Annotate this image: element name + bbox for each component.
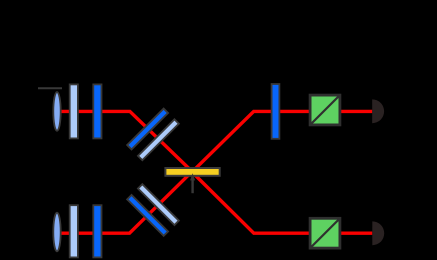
leader line to lens L1 xyxy=(38,87,62,89)
filter plate (pale, upper arm) xyxy=(70,84,78,138)
dichroic mirror (pale, lower arm) xyxy=(138,184,179,225)
dichroic mirror (blue, lower arm) xyxy=(127,195,168,236)
filter plate (pale, lower arm) xyxy=(70,205,78,257)
wire: beam A lower-right diagonal out of beamsplitter + horizontal to detector D2 xyxy=(195,175,372,233)
lens L1 (upper arm) xyxy=(53,92,60,131)
dichroic mirror (pale, upper arm) xyxy=(138,119,179,160)
detector D2 (lower) xyxy=(372,221,384,245)
polarizer cube P1 (green, upper-right) xyxy=(310,95,340,125)
filter plate (blue, upper arm) xyxy=(93,84,101,138)
wave plate (blue, upper-right arm) xyxy=(272,84,280,139)
wire: beam A upper-left horizontal + diagonal into beamsplitter xyxy=(57,111,191,170)
polarizer cube P2 (green, lower-right) xyxy=(310,218,340,248)
beamsplitter slab BS (yellow) xyxy=(165,168,219,176)
dichroic mirror (blue, upper arm) xyxy=(127,109,168,150)
wire: beam B lower-left horizontal + diagonal into beamsplitter xyxy=(57,175,188,233)
filter plate (blue, lower arm) xyxy=(93,205,101,257)
detector D1 (upper) xyxy=(372,99,384,123)
lens L2 (lower arm) xyxy=(53,213,60,252)
pointer arrow to beamsplitter xyxy=(190,173,195,193)
wire: beam B upper-right diagonal out of beamsplitter + horizontal to detector D1 xyxy=(194,111,372,169)
